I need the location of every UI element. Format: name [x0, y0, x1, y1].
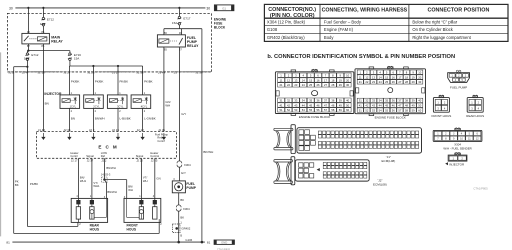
svg-text:PK/BK: PK/BK	[95, 80, 104, 84]
fuel pump relay K2	[157, 35, 185, 47]
wire: fuel pump relay 30 feed / right BK/WH run	[201, 29, 203, 242]
svg-text:RELAY: RELAY	[187, 44, 199, 48]
svg-text:27: 27	[398, 80, 401, 84]
svg-text:37: 37	[324, 98, 327, 102]
svg-text:13: 13	[372, 75, 375, 79]
injector 4CYL	[142, 66, 144, 95]
svg-text:48: 48	[331, 103, 334, 107]
svg-text:32: 32	[365, 99, 368, 103]
svg-text:Contr'l: Contr'l	[157, 139, 165, 143]
svg-text:57: 57	[324, 108, 327, 112]
svg-text:CONNECTOR POSITION: CONNECTOR POSITION	[427, 8, 489, 14]
svg-text:36: 36	[317, 98, 320, 102]
svg-text:30: 30	[206, 6, 210, 10]
svg-text:Right the luggage compartment: Right the luggage compartment	[412, 35, 471, 40]
svg-text:47: 47	[324, 103, 327, 107]
svg-text:16: 16	[317, 78, 320, 82]
svg-text:BK: BK	[15, 183, 19, 187]
svg-text:22: 22	[287, 83, 290, 87]
svg-text:58: 58	[405, 108, 408, 112]
svg-text:49: 49	[412, 104, 415, 108]
svg-text:17: 17	[324, 78, 327, 82]
svg-text:23: 23	[372, 80, 375, 84]
svg-text:GN: GN	[156, 177, 160, 181]
node: tap to fuse E717	[178, 7, 180, 9]
svg-text:54: 54	[379, 108, 382, 112]
svg-text:51: 51	[359, 108, 362, 112]
svg-text:22: 22	[365, 80, 368, 84]
svg-text:Below the right “C” pillar: Below the right “C” pillar	[412, 20, 457, 25]
injector 1CYL	[68, 66, 70, 95]
svg-text:45: 45	[385, 104, 388, 108]
ECM connector J1 drawing	[274, 128, 293, 150]
svg-text:INJECTOR: INJECTOR	[44, 92, 62, 96]
svg-text:23: 23	[294, 83, 297, 87]
svg-text:WH: WH	[165, 103, 170, 107]
wire: front pin 2 return	[158, 219, 160, 222]
svg-text:48: 48	[405, 104, 408, 108]
connector X304 fuel sender	[455, 128, 460, 130]
svg-text:42: 42	[287, 103, 290, 107]
fuel pump motor	[172, 181, 185, 193]
svg-text:E717: E717	[183, 17, 190, 21]
svg-text:39: 39	[339, 98, 342, 102]
inline connector X304 on pump feed	[178, 161, 180, 167]
svg-text:BLOCK: BLOCK	[214, 25, 226, 29]
fuse E712 15A	[25, 53, 29, 61]
svg-text:19: 19	[412, 75, 415, 79]
front heater element	[154, 204, 156, 206]
front oxygen sensor housing box FRONT HOUS	[124, 198, 161, 222]
engine fuse block bottom edge with inline connectors	[7, 71, 211, 73]
svg-text:60: 60	[346, 108, 349, 112]
svg-text:41: 41	[280, 103, 283, 107]
wire: injector feed bus from fuse E716	[69, 60, 71, 66]
svg-text:31: 31	[359, 99, 362, 103]
svg-text:G1: G1	[222, 7, 226, 11]
wire: PK/BK feed J1-4 down	[26, 67, 28, 227]
front sensor element	[140, 204, 142, 206]
svg-text:35: 35	[385, 99, 388, 103]
svg-text:54: 54	[302, 108, 305, 112]
node: tap to main relay contact	[27, 7, 29, 9]
svg-text:L-GN/BK: L-GN/BK	[144, 117, 156, 121]
svg-text:G108: G108	[267, 27, 278, 32]
svg-text:25: 25	[385, 80, 388, 84]
svg-text:HOUS: HOUS	[90, 227, 100, 231]
wire injector 2CYL to ECM	[92, 108, 94, 131]
connector table	[264, 4, 508, 41]
svg-text:3CYL: 3CYL	[117, 104, 124, 108]
svg-text:59: 59	[339, 108, 342, 112]
wire: relay pin 87 down, branch to two 15A fuses	[27, 44, 29, 51]
connector REAR HOUS	[473, 95, 478, 97]
svg-text:44: 44	[379, 104, 382, 108]
svg-text:81: 81	[207, 241, 211, 245]
svg-text:55: 55	[309, 108, 312, 112]
svg-text:BK: BK	[180, 215, 184, 219]
svg-text:10: 10	[418, 70, 421, 74]
connector FRONT HOUS	[439, 95, 444, 97]
svg-text:G106: G106	[185, 238, 192, 242]
svg-text:E712: E712	[31, 53, 38, 57]
svg-text:20: 20	[346, 78, 349, 82]
svg-text:34: 34	[302, 98, 305, 102]
svg-text:27: 27	[324, 83, 327, 87]
svg-text:46: 46	[317, 103, 320, 107]
front pin3 interior wire	[126, 198, 128, 217]
svg-text:J1 42: J1 42	[38, 128, 45, 132]
svg-text:PUMP: PUMP	[186, 186, 196, 190]
svg-text:38: 38	[331, 98, 334, 102]
svg-text:(PIN NO. COLOR): (PIN NO. COLOR)	[270, 13, 315, 19]
svg-text:43: 43	[372, 104, 375, 108]
svg-text:4CYL: 4CYL	[141, 104, 148, 108]
wire: J2-2 low ref with splice J4103-3	[103, 158, 105, 179]
svg-text:19: 19	[339, 78, 342, 82]
wire injector 1CYL to ECM	[68, 108, 70, 131]
svg-text:FUEL PUMP: FUEL PUMP	[450, 85, 467, 89]
wire: J2-20 to front pin 1, VT/WH	[140, 158, 142, 200]
svg-text:34: 34	[379, 99, 382, 103]
svg-text:40: 40	[346, 98, 349, 102]
svg-text:24: 24	[379, 80, 382, 84]
svg-text:58: 58	[331, 108, 334, 112]
svg-text:G/Y: G/Y	[181, 171, 186, 175]
svg-text:49: 49	[339, 103, 342, 107]
svg-text:L-BU/BK: L-BU/BK	[120, 117, 131, 121]
inline connector X304 ground side	[178, 205, 180, 211]
svg-text:51: 51	[280, 108, 283, 112]
wire: left PK/BK feed J1-2 down	[13, 67, 15, 234]
svg-text:CONNECTING, WIRING HARNESS: CONNECTING, WIRING HARNESS	[322, 8, 408, 14]
svg-text:PK/BK: PK/BK	[120, 80, 129, 84]
wire: splice to front pin 3	[104, 179, 126, 181]
svg-text:J1 4: J1 4	[22, 71, 28, 75]
svg-text:28: 28	[331, 83, 334, 87]
ECM connector J2 drawing	[274, 160, 293, 184]
svg-text:b. CONNECTOR IDENTIFICATION SY: b. CONNECTOR IDENTIFICATION SYMBOL & PIN…	[267, 54, 455, 60]
svg-text:RELAY: RELAY	[51, 40, 63, 44]
svg-text:81: 81	[6, 241, 10, 245]
svg-text:21: 21	[174, 71, 178, 75]
svg-text:39: 39	[412, 99, 415, 103]
svg-text:BN: BN	[45, 101, 49, 105]
svg-text:HOUS: HOUS	[127, 227, 137, 231]
wire: bus to main relay pin 30	[27, 8, 29, 34]
svg-text:Ref: Ref	[101, 154, 105, 158]
engine fuse block dashed boundary	[7, 13, 211, 72]
wire: power bus 30 (top)	[15, 7, 205, 9]
svg-text:J2 20: J2 20	[136, 159, 143, 163]
wire: J2-17 to rear heater pin 4, BN/WH1	[77, 158, 79, 200]
scan edge artifact left border	[0, 52, 2, 236]
svg-text:W/H - FUEL SENDER: W/H - FUEL SENDER	[443, 146, 471, 150]
wire: J2-37 to rear pin 1, VT/WH1	[91, 158, 93, 200]
svg-text:40: 40	[418, 99, 421, 103]
injector 3CYL	[117, 66, 119, 95]
rear pin3 interior wire	[105, 198, 107, 217]
svg-text:BK: BK	[180, 198, 184, 202]
svg-text:59: 59	[412, 108, 415, 112]
connector FUEL PUMP	[456, 70, 461, 72]
svg-text:26: 26	[317, 83, 320, 87]
wire injector 3CYL to ECM	[117, 108, 119, 131]
svg-text:37: 37	[398, 99, 401, 103]
wire loop to fuel pump relay pins	[164, 28, 202, 30]
svg-text:13: 13	[294, 78, 297, 82]
svg-text:REAR HOUS: REAR HOUS	[466, 114, 484, 118]
svg-text:BN: BN	[71, 117, 75, 121]
svg-text:J1 18: J1 18	[38, 71, 45, 75]
svg-text:PK/BK: PK/BK	[71, 80, 80, 84]
svg-text:20: 20	[418, 75, 421, 79]
svg-text:J1 31: J1 31	[158, 128, 165, 132]
svg-text:Contrl: Contrl	[70, 154, 78, 158]
svg-text:BN/WH: BN/WH	[106, 166, 115, 170]
svg-text:29: 29	[412, 80, 415, 84]
svg-text:WH1: WH1	[80, 179, 87, 183]
connector INJECTOR	[455, 152, 460, 154]
svg-text:WH1: WH1	[93, 184, 100, 188]
svg-text:J2 2: J2 2	[89, 128, 95, 132]
svg-text:WH: WH	[128, 188, 133, 192]
svg-text:52: 52	[365, 108, 368, 112]
svg-text:18: 18	[331, 78, 334, 82]
wire: pump ground BK	[178, 193, 180, 242]
svg-text:Signal: Signal	[86, 154, 94, 158]
svg-text:11: 11	[280, 78, 283, 82]
rear heater element	[77, 204, 79, 206]
svg-text:43: 43	[294, 103, 297, 107]
svg-text:60: 60	[418, 108, 421, 112]
svg-text:PK/BK: PK/BK	[144, 80, 153, 84]
wire: bus to fuse E712	[42, 8, 44, 18]
svg-text:33: 33	[372, 99, 375, 103]
svg-text:J2 37: J2 37	[87, 159, 94, 163]
fuse E716 15A	[68, 53, 72, 61]
node: tap to fuse E712	[42, 7, 44, 9]
svg-text:42: 42	[365, 104, 368, 108]
svg-text:CTA1/P805: CTA1/P805	[473, 187, 488, 191]
svg-text:X304 (12 Pin, Black): X304 (12 Pin, Black)	[267, 20, 306, 25]
fuse E717 15A	[177, 16, 181, 24]
ground node G106	[177, 241, 180, 244]
svg-text:1CYL: 1CYL	[70, 104, 77, 108]
ground reference tag GND	[214, 240, 234, 244]
wire: relay 86 output BN down to ECM J1-42	[42, 44, 44, 132]
wire: fuse E712b down with branch to J1-2	[26, 60, 28, 66]
svg-text:Fuel Sender – Body: Fuel Sender – Body	[324, 20, 362, 25]
svg-text:GR402: GR402	[181, 227, 190, 231]
svg-text:Body: Body	[324, 35, 334, 40]
svg-text:21: 21	[280, 83, 283, 87]
svg-text:10: 10	[346, 73, 349, 77]
svg-text:52: 52	[287, 108, 290, 112]
svg-text:18: 18	[405, 75, 408, 79]
svg-text:BN/WH: BN/WH	[107, 190, 116, 194]
svg-text:29: 29	[339, 83, 342, 87]
svg-text:32: 32	[287, 98, 290, 102]
svg-text:Signal: Signal	[136, 154, 144, 158]
svg-text:30: 30	[9, 6, 13, 10]
svg-text:26: 26	[392, 80, 395, 84]
connector grid ENGINE FUSE BLOCK	[388, 66, 393, 68]
svg-text:41: 41	[359, 104, 362, 108]
svg-text:15: 15	[385, 75, 388, 79]
svg-text:GR402 (Black/Gray): GR402 (Black/Gray)	[267, 35, 305, 40]
svg-text:X304: X304	[183, 207, 190, 211]
svg-text:Control: Control	[150, 154, 159, 158]
svg-text:28: 28	[405, 80, 408, 84]
svg-text:INJECTOR: INJECTOR	[449, 163, 465, 167]
svg-text:16: 16	[392, 75, 395, 79]
wire: splice to rear pin 3	[104, 180, 106, 183]
fuse E712 10A	[41, 17, 45, 25]
svg-text:35: 35	[309, 98, 312, 102]
injector 2CYL	[92, 66, 94, 95]
svg-text:FRONT HOUS: FRONT HOUS	[432, 114, 452, 118]
svg-text:BN/WH: BN/WH	[95, 117, 105, 121]
svg-text:PK/BK: PK/BK	[30, 182, 38, 186]
svg-text:G/Y: G/Y	[181, 112, 186, 116]
reference tag box G1 (top right)	[214, 5, 234, 11]
svg-text:On the Cylinder Block: On the Cylinder Block	[412, 27, 453, 32]
svg-text:J4103-3: J4103-3	[101, 172, 111, 176]
svg-text:2CYL: 2CYL	[93, 104, 100, 108]
svg-text:10A: 10A	[40, 22, 45, 26]
svg-text:ECM(L08): ECM(L08)	[373, 182, 387, 186]
rear oxygen sensor housing box REAR HOUS	[71, 198, 107, 222]
svg-text:BK/WH: BK/WH	[203, 150, 213, 154]
svg-text:WH: WH	[143, 179, 148, 183]
wire: fuse E717 drop from bus	[178, 8, 180, 17]
svg-text:56: 56	[392, 108, 395, 112]
wire injector 4CYL to ECM	[142, 108, 144, 131]
svg-text:12: 12	[365, 75, 368, 79]
svg-text:33: 33	[294, 98, 297, 102]
svg-text:GND: GND	[221, 241, 227, 245]
svg-text:ECM(L08): ECM(L08)	[382, 159, 396, 163]
svg-text:44: 44	[302, 103, 305, 107]
svg-text:15A: 15A	[24, 57, 29, 61]
svg-text:50: 50	[418, 104, 421, 108]
connector GR402	[172, 224, 180, 233]
rear sensor element	[91, 204, 93, 206]
svg-text:53: 53	[372, 108, 375, 112]
ECM dashed box	[36, 132, 176, 159]
svg-text:30: 30	[346, 83, 349, 87]
svg-text:21: 21	[359, 80, 362, 84]
svg-text:55: 55	[385, 108, 388, 112]
wire: J2-35 to front pin 4, GN	[154, 158, 156, 200]
svg-text:E712: E712	[47, 17, 54, 21]
svg-text:J2 12: J2 12	[137, 128, 144, 132]
wire: relay 85 to ECM J1-31 GN/WH	[163, 47, 165, 132]
svg-text:X304: X304	[184, 163, 191, 167]
svg-text:J2 17: J2 17	[71, 159, 78, 163]
svg-text:57: 57	[398, 108, 401, 112]
svg-text:14: 14	[302, 78, 305, 82]
svg-text:15: 15	[309, 78, 312, 82]
svg-text:46: 46	[392, 104, 395, 108]
svg-text:ENGINE FUSE BLOCK: ENGINE FUSE BLOCK	[299, 115, 330, 119]
svg-text:53: 53	[294, 108, 297, 112]
svg-text:11: 11	[359, 75, 362, 79]
svg-text:J2 15: J2 15	[112, 128, 119, 132]
svg-text:ENGINE FUSE BLOCK: ENGINE FUSE BLOCK	[375, 115, 406, 119]
svg-text:E C M: E C M	[98, 144, 118, 149]
svg-text:Engine (FAM II): Engine (FAM II)	[324, 27, 354, 32]
svg-text:45: 45	[309, 103, 312, 107]
wire: relay 87 to fuel pump G/Y	[178, 47, 180, 181]
ground bus 81	[12, 241, 205, 243]
svg-text:50: 50	[346, 103, 349, 107]
connector grid ENGINE FUSE BLOCK	[312, 69, 317, 71]
svg-text:30: 30	[418, 80, 421, 84]
wire: fuse E712 to relay pin 85	[42, 26, 44, 34]
svg-text:25: 25	[309, 83, 312, 87]
svg-text:15A: 15A	[172, 21, 177, 25]
svg-text:12: 12	[287, 78, 290, 82]
wire: rear pin 2 return	[77, 219, 79, 222]
svg-text:24: 24	[302, 83, 305, 87]
main relay K1	[22, 33, 50, 44]
svg-text:47: 47	[398, 104, 401, 108]
svg-text:56: 56	[317, 108, 320, 112]
svg-text:J2 35: J2 35	[151, 159, 158, 163]
svg-text:J2 36: J2 36	[63, 128, 70, 132]
svg-text:38: 38	[405, 99, 408, 103]
svg-text:36: 36	[392, 99, 395, 103]
svg-text:15A: 15A	[74, 57, 79, 61]
svg-text:14: 14	[379, 75, 382, 79]
svg-text:17: 17	[398, 75, 401, 79]
svg-text:31: 31	[280, 98, 283, 102]
